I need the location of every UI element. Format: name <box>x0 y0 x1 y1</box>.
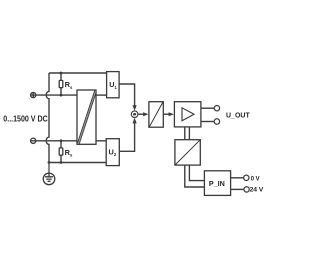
terminal output top <box>214 106 219 111</box>
wire transformer to U2 <box>96 140 106 142</box>
terminal + input <box>31 93 36 98</box>
svg-text:0...1500 V DC: 0...1500 V DC <box>3 114 47 123</box>
wire top rail <box>49 72 107 74</box>
summing node <box>131 111 138 118</box>
wire summing node to isolator <box>138 113 144 115</box>
wire left rail with crossover hops <box>46 73 49 163</box>
wire amplifier output bottom <box>201 121 214 123</box>
wire P_IN to 0V terminal <box>231 177 244 179</box>
isolator block (diagonal) <box>149 102 163 128</box>
wire + input to transformer <box>36 94 77 96</box>
junction dot bottom rail / ground <box>48 161 51 164</box>
wire DC/DC to P_IN lower <box>185 165 205 187</box>
amplifier U3 <box>174 102 201 127</box>
terminal output bottom <box>214 119 219 124</box>
svg-text:P_IN: P_IN <box>209 179 225 188</box>
block P_IN <box>204 171 230 196</box>
terminal - input <box>31 138 36 143</box>
isolation transformer T1 <box>77 90 96 144</box>
junction dot - wire / Rs <box>60 139 63 142</box>
block U2 <box>106 139 119 166</box>
junction dot bottom rail / Rs <box>60 161 63 164</box>
wire isolator to amplifier <box>163 113 169 115</box>
wire transformer to U1 <box>96 94 107 96</box>
arrow U1 into summing node <box>133 105 137 111</box>
wire - input to transformer <box>36 140 77 142</box>
resistor Rs top <box>59 73 63 95</box>
wire U2 output to summing node <box>119 123 134 151</box>
wire U1 output to summing node <box>119 84 135 106</box>
ground (protective earth) <box>43 163 55 185</box>
wire DC/DC to P_IN upper <box>189 165 204 181</box>
wire amplifier to DC/DC (double link) <box>185 127 190 140</box>
arrow into amplifier <box>169 112 174 116</box>
resistor Rs bottom <box>59 141 63 163</box>
arrow U2 into summing node <box>133 118 137 124</box>
wire bottom rail <box>49 162 106 164</box>
svg-text:0 V: 0 V <box>251 176 260 183</box>
junction dot top rail / Rs <box>60 72 63 75</box>
DC/DC converter block <box>175 140 200 165</box>
junction dot + wire / Rs <box>60 94 63 97</box>
arrow into isolator <box>143 112 148 116</box>
wire P_IN to 24V terminal <box>231 188 244 190</box>
terminal 24V <box>244 187 249 192</box>
svg-text:U_OUT: U_OUT <box>226 113 250 120</box>
terminal 0V <box>244 175 249 180</box>
block U1 <box>107 72 120 98</box>
wire amplifier output top <box>201 107 214 109</box>
svg-text:24 V: 24 V <box>250 187 264 194</box>
